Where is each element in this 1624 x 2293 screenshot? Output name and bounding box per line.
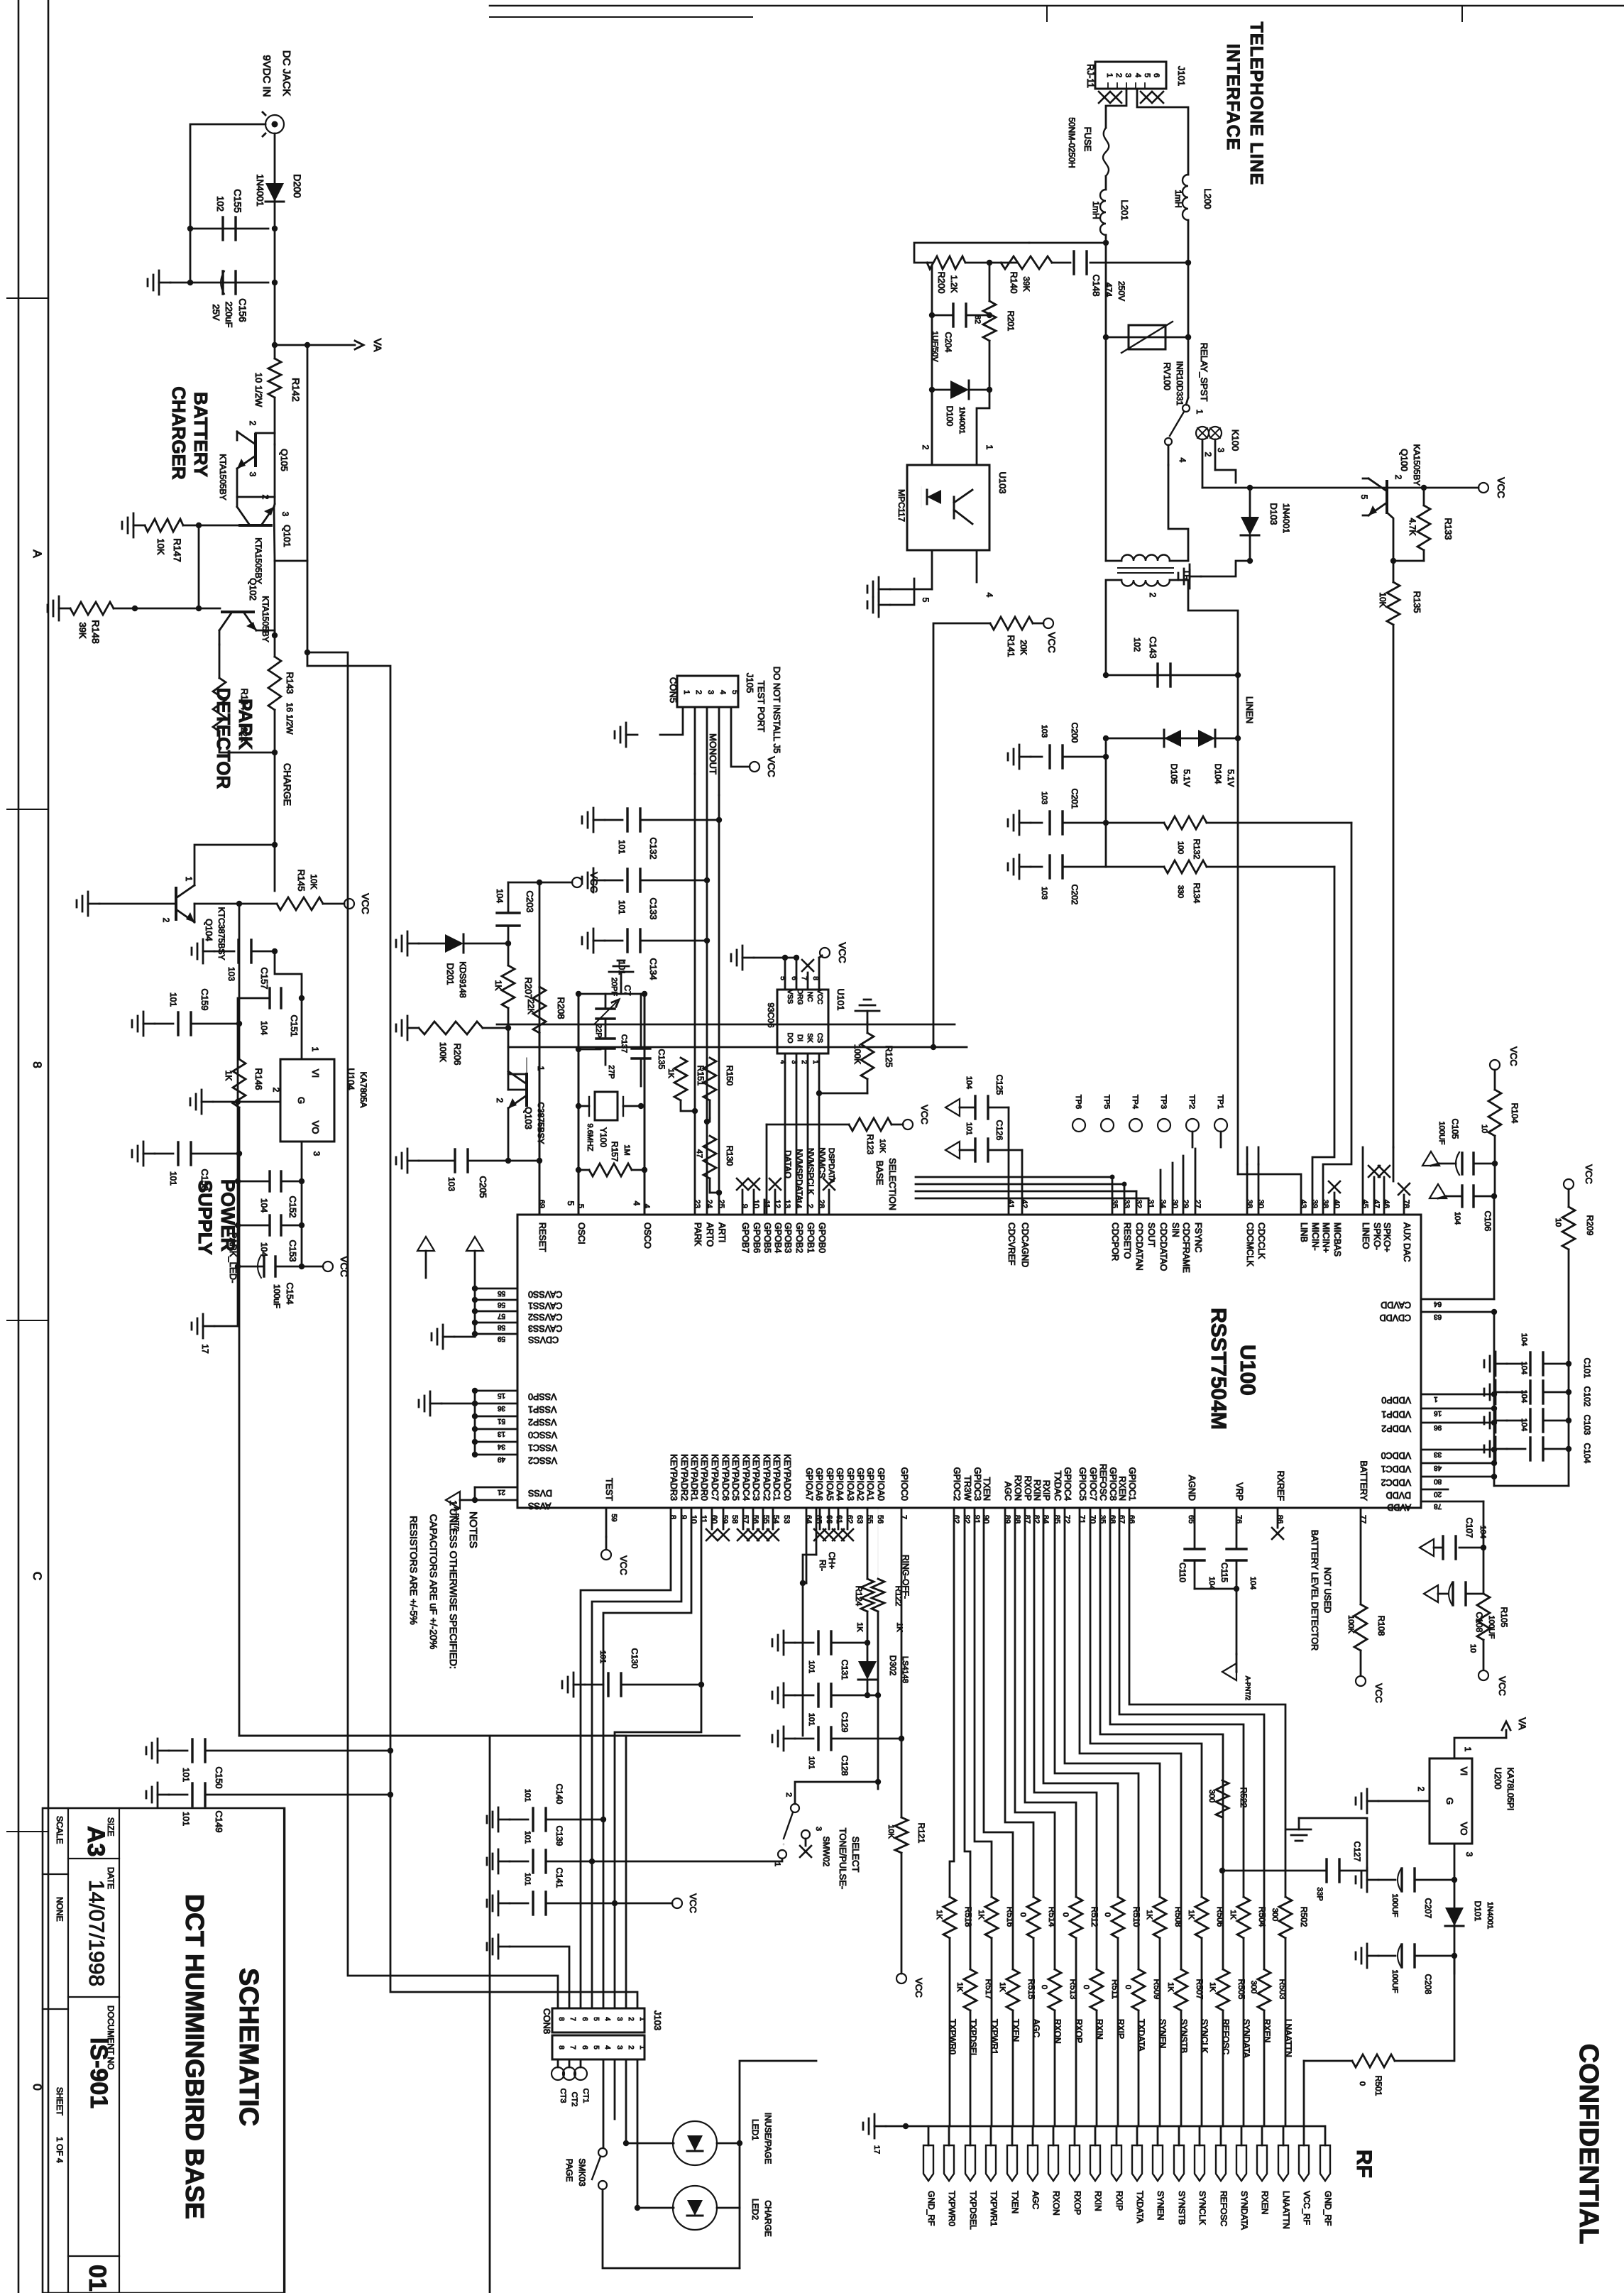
resistor R140 [1001, 256, 1052, 269]
svg-text:1K: 1K [1208, 1982, 1217, 1992]
svg-text:D201: D201 [445, 963, 456, 985]
svg-text:8: 8 [811, 976, 819, 980]
svg-text:LNAATTN: LNAATTN [1281, 2191, 1291, 2229]
svg-text:R146: R146 [253, 1068, 264, 1090]
wire C151 left [238, 998, 270, 1326]
optocoupler U103 box [907, 465, 989, 550]
ground C201 [1019, 822, 1031, 824]
svg-text:U103: U103 [997, 471, 1008, 493]
svg-text:102: 102 [215, 196, 226, 212]
svg-text:53: 53 [782, 1515, 791, 1523]
wire reset rail [508, 882, 539, 884]
analog gnd triangle 2 [417, 1237, 434, 1251]
svg-text:TXPDSEL: TXPDSEL [968, 2191, 978, 2230]
svg-text:VSSC2: VSSC2 [528, 1455, 557, 1465]
wire r133-r135 [1393, 561, 1424, 582]
svg-text:104: 104 [1453, 1212, 1461, 1225]
svg-text:AUX DAC: AUX DAC [1402, 1222, 1412, 1262]
svg-text:LINEO: LINEO [1361, 1222, 1371, 1249]
wire r140-c148 [1052, 262, 1070, 264]
resistor R143 [268, 657, 281, 710]
wire osc left [578, 994, 580, 1215]
svg-text:0: 0 [1082, 1985, 1090, 1989]
svg-text:VCC: VCC [360, 893, 371, 914]
wire charge-line long [275, 951, 302, 998]
svg-text:GPIOA4: GPIOA4 [835, 1467, 845, 1501]
ground c127 [1298, 1818, 1300, 1829]
svg-text:DVDD: DVDD [1386, 1490, 1411, 1500]
svg-text:GPOB3: GPOB3 [783, 1222, 793, 1253]
wire sec right down [1170, 580, 1238, 675]
svg-text:GPIOC0: GPIOC0 [899, 1467, 909, 1501]
pad bus dot [903, 2123, 909, 2129]
resistor R121 [895, 1817, 908, 1853]
border zone tick 1 [7, 297, 48, 299]
wire tip row [1029, 242, 1106, 244]
svg-text:C149: C149 [214, 1810, 224, 1832]
svg-text:R108: R108 [1376, 1616, 1386, 1636]
analog tri c106 [1430, 1184, 1447, 1198]
svg-text:58: 58 [497, 1323, 505, 1331]
svg-text:GPOB2: GPOB2 [794, 1222, 804, 1253]
svg-text:C135: C135 [657, 1049, 666, 1070]
rxref nc [1272, 1528, 1283, 1539]
R522 resistor [1216, 1780, 1229, 1817]
svg-text:TP2: TP2 [1187, 1095, 1196, 1109]
wire Q101 legs [237, 497, 275, 507]
node vi [299, 995, 304, 1001]
bus net SYNCLK [1090, 1508, 1202, 1897]
svg-text:CDCDATAN: CDCDATAN [1134, 1222, 1144, 1271]
wire zener row [1106, 738, 1238, 740]
ground C131 [784, 1642, 795, 1644]
testpoint CT1 [552, 2067, 564, 2080]
capacitor C154 polarized [263, 1257, 265, 1276]
svg-text:4: 4 [603, 2045, 611, 2050]
GPOB nc marks [737, 1178, 748, 1190]
RF pad VCC_RF [1299, 2145, 1309, 2181]
title separator line [489, 1736, 491, 2293]
svg-text:RXON: RXON [1053, 2019, 1063, 2044]
svg-text:104: 104 [495, 889, 505, 903]
wire micin2 [1312, 867, 1334, 1215]
regulator U200 [1430, 1758, 1472, 1844]
wire va-u200 [1454, 1738, 1506, 1758]
capacitor C207 [1400, 1868, 1403, 1891]
LED2 [673, 2186, 717, 2230]
svg-text:AVSS: AVSS [528, 1501, 551, 1511]
svg-text:101: 101 [598, 1651, 607, 1663]
svg-text:C125: C125 [994, 1075, 1004, 1095]
wire Q100 [1363, 478, 1368, 480]
svg-text:SYNSTB: SYNSTB [1179, 2019, 1189, 2053]
svg-text:BATTERY: BATTERY [1359, 1461, 1368, 1501]
resistor R206 [419, 1022, 483, 1034]
ground R147 [133, 525, 145, 527]
svg-text:9: 9 [740, 1204, 749, 1208]
RF pad RXOP [1070, 2145, 1080, 2181]
fuse F100 [1103, 128, 1109, 176]
svg-text:3: 3 [790, 1060, 798, 1064]
opto transistor [953, 497, 955, 518]
wire U104 gnd [213, 1101, 280, 1103]
capacitor C115 [1227, 1548, 1246, 1550]
transformer T100 core [1118, 567, 1173, 569]
VCC power supply [323, 1262, 333, 1271]
connector J101 [1095, 62, 1166, 89]
capacitor C143 [1156, 664, 1158, 686]
svg-text:VDDP0: VDDP0 [1381, 1395, 1411, 1405]
CAVSS rail [474, 1288, 476, 1337]
svg-text:C3875BSY: C3875BSY [536, 1102, 546, 1144]
wire C157 [274, 845, 276, 891]
svg-text:59: 59 [497, 1335, 505, 1342]
svg-text:8: 8 [557, 2045, 565, 2050]
svg-text:49: 49 [497, 1455, 505, 1463]
svg-text:GPIOA5: GPIOA5 [825, 1467, 835, 1501]
svg-text:104: 104 [259, 1242, 269, 1257]
svg-text:1K: 1K [935, 1910, 943, 1920]
svg-text:C203: C203 [525, 890, 535, 912]
svg-text:59: 59 [720, 1515, 729, 1523]
connector J103 CON8 row2 [552, 2035, 644, 2059]
wire trim [605, 994, 607, 1009]
svg-text:4: 4 [632, 1201, 642, 1206]
svg-text:104: 104 [1520, 1390, 1528, 1403]
svg-text:C157: C157 [259, 967, 270, 989]
capacitor C110 [1185, 1548, 1205, 1550]
analog tri c126 [945, 1142, 960, 1159]
wire e-r145 [194, 903, 277, 905]
ground R148 [59, 608, 70, 610]
svg-text:GPOB7: GPOB7 [740, 1222, 750, 1253]
svg-text:RF: RF [1352, 2150, 1376, 2178]
capacitor C148 [1072, 251, 1075, 274]
U101 pin7 nc [802, 960, 813, 971]
svg-text:MICIN-: MICIN- [1310, 1222, 1320, 1251]
svg-text:DVSS: DVSS [528, 1488, 552, 1498]
ground C102 [1496, 1391, 1507, 1394]
svg-text:1: 1 [682, 690, 691, 694]
wire L200-relay [1187, 337, 1190, 398]
svg-text:CDCFRAME: CDCFRAME [1181, 1222, 1191, 1273]
wire ring down [877, 1695, 879, 1789]
svg-text:AGC: AGC [1031, 2019, 1041, 2037]
svg-text:REFOSC: REFOSC [1219, 2191, 1229, 2226]
title block h3 [68, 2255, 119, 2257]
capacitor C104 [1529, 1438, 1531, 1460]
svg-text:CDCDATAO: CDCDATAO [1158, 1222, 1168, 1271]
capacitor C151 [268, 988, 270, 1008]
relay K100 pin4 wire [1168, 445, 1170, 465]
svg-text:C141: C141 [554, 1868, 564, 1888]
svg-text:CDCVREF: CDCVREF [1006, 1222, 1016, 1266]
connector J103 CON8 row1 [552, 2008, 644, 2032]
wire U200 out [1454, 1844, 1456, 1974]
svg-text:R208: R208 [556, 997, 566, 1019]
svg-text:L200: L200 [1202, 189, 1213, 209]
wire r124 down [867, 1611, 869, 1643]
svg-text:GPIOA7: GPIOA7 [804, 1467, 814, 1501]
svg-text:C137: C137 [620, 1034, 628, 1053]
svg-text:C207: C207 [1423, 1898, 1433, 1919]
RF pad GND_RF [1320, 2145, 1330, 2181]
wire Q102 emitter [219, 630, 221, 645]
svg-text:VA: VA [1517, 1717, 1528, 1730]
capacitor C202 [1048, 855, 1050, 878]
bus net TXPDSEL [965, 1508, 970, 1969]
resistor R514 [1027, 1897, 1040, 1938]
svg-text:VCC: VCC [1497, 1676, 1508, 1695]
svg-text:2: 2 [1416, 1787, 1426, 1792]
resistor R208 [533, 987, 546, 1033]
svg-text:220uF: 220uF [224, 302, 234, 328]
svg-text:R517: R517 [984, 1979, 994, 2000]
svg-text:1K: 1K [224, 1071, 234, 1081]
ground C104 [1496, 1448, 1507, 1450]
capacitor C157 ground [203, 951, 214, 953]
wire left col down [1105, 738, 1107, 867]
sw102 nc [800, 1846, 811, 1857]
svg-text:1: 1 [536, 1066, 546, 1071]
svg-text:DO: DO [786, 1033, 794, 1044]
svg-text:RXREF: RXREF [1275, 1471, 1285, 1501]
capacitor C156 [221, 271, 224, 294]
svg-text:KEYPADR2: KEYPADR2 [679, 1454, 689, 1501]
svg-text:1K: 1K [955, 1982, 964, 1992]
RF pad LNAATTN [1278, 2145, 1288, 2181]
svg-text:47: 47 [695, 1149, 703, 1158]
wire VA rail ext [307, 561, 309, 666]
diode D103 [1241, 517, 1259, 535]
ground C202 [1019, 866, 1031, 868]
svg-text:1M: 1M [622, 1144, 631, 1155]
svg-text:C205: C205 [478, 1176, 488, 1198]
svg-text:104: 104 [1520, 1418, 1528, 1431]
svg-text:16: 16 [1434, 1409, 1442, 1417]
con8 down pin4 [603, 2059, 605, 2147]
resistor R505 [1217, 1969, 1229, 2010]
title block v1 [67, 1808, 69, 2293]
svg-text:KEYPADR3: KEYPADR3 [669, 1454, 679, 1501]
switch SW102 [791, 1804, 799, 1812]
svg-text:LINEN: LINEN [1244, 696, 1255, 723]
ground osc [620, 972, 622, 983]
svg-text:15: 15 [497, 1391, 505, 1399]
resistor R130 [703, 1136, 716, 1178]
wire battery pin [1360, 1508, 1362, 1604]
svg-text:1K: 1K [1187, 1910, 1195, 1920]
svg-text:TP1: TP1 [1216, 1095, 1224, 1109]
svg-text:104: 104 [1249, 1577, 1257, 1589]
ground C159 [143, 1023, 155, 1025]
bus wire A2 [307, 666, 637, 2008]
svg-text:82: 82 [973, 315, 982, 324]
wire gpob lines [742, 1190, 744, 1215]
svg-text:3: 3 [1216, 448, 1226, 453]
svg-text:SYNEN: SYNEN [1156, 2191, 1165, 2220]
ground D103 [1190, 576, 1201, 578]
svg-text:300: 300 [1249, 1981, 1258, 1993]
svg-text:GND_RF: GND_RF [926, 2191, 936, 2226]
svg-text:VCC: VCC [588, 872, 600, 893]
wire led right rail [717, 2143, 740, 2208]
svg-text:D101: D101 [1473, 1901, 1483, 1922]
svg-text:3: 3 [706, 690, 715, 694]
node charge [272, 750, 278, 755]
wire row c143 [1106, 674, 1238, 677]
ground D201 [407, 943, 419, 945]
RF pad RXIP [1112, 2145, 1121, 2181]
svg-text:3: 3 [615, 2045, 623, 2050]
svg-text:25: 25 [717, 1200, 725, 1208]
svg-text:1K: 1K [1145, 1910, 1153, 1920]
bus net RXIP [1043, 1508, 1118, 1897]
svg-text:22P: 22P [594, 1024, 603, 1038]
svg-text:10K: 10K [309, 874, 319, 889]
VSS rail [474, 1391, 476, 1455]
svg-text:GPIOC4: GPIOC4 [1063, 1467, 1072, 1501]
capacitor C157 [237, 940, 239, 963]
svg-text:R132: R132 [1192, 839, 1202, 860]
svg-text:VDDC1: VDDC1 [1381, 1464, 1411, 1474]
ground C134 [593, 940, 605, 942]
svg-text:10: 10 [1554, 1218, 1562, 1227]
capacitor C130 [607, 1673, 609, 1696]
wire r125-cs [819, 1093, 867, 1095]
svg-text:4: 4 [642, 1204, 651, 1208]
svg-text:1N4001: 1N4001 [958, 407, 966, 434]
svg-text:TXPWR1: TXPWR1 [989, 2019, 999, 2054]
svg-text:27P: 27P [607, 1065, 615, 1079]
svg-text:NVMCS: NVMCS [817, 1147, 827, 1178]
svg-text:LED1: LED1 [750, 2119, 760, 2140]
svg-text:G: G [296, 1097, 307, 1104]
resistor R512 [1070, 1897, 1082, 1938]
svg-text:3: 3 [312, 1151, 322, 1156]
wire J105 p2 monout [694, 707, 696, 774]
resistor R511 [1090, 1969, 1103, 2010]
svg-text:GPIOA2: GPIOA2 [855, 1467, 865, 1501]
svg-text:20: 20 [1434, 1490, 1442, 1498]
svg-text:RXEN: RXEN [1260, 2191, 1270, 2214]
wire keypadr1 feed [603, 1508, 691, 2008]
ground left of r141 [879, 604, 890, 606]
VCC J105 [750, 762, 759, 772]
ground con8 extra [498, 1946, 510, 1948]
wire c132 net ties [716, 817, 722, 823]
svg-text:VCC: VCC [837, 942, 848, 963]
svg-text:R512: R512 [1090, 1907, 1099, 1927]
capacitor C200 [1048, 745, 1050, 768]
svg-text:C201: C201 [1070, 789, 1080, 809]
micbas nc [1329, 1181, 1340, 1193]
svg-text:VRP: VRP [1234, 1482, 1244, 1501]
svg-text:21: 21 [497, 1488, 505, 1496]
svg-text:2: 2 [1203, 452, 1213, 457]
svg-text:3: 3 [248, 472, 258, 477]
svg-text:38: 38 [1321, 1200, 1329, 1208]
resistor R144 [213, 678, 226, 731]
ground C205 [407, 1160, 419, 1162]
svg-text:GPIOA1: GPIOA1 [865, 1467, 875, 1501]
svg-text:R504: R504 [1257, 1907, 1267, 1927]
capacitor C134 [626, 929, 628, 952]
svg-text:TP4: TP4 [1131, 1095, 1139, 1109]
wire agnd join [1195, 1588, 1236, 1590]
svg-text:J101: J101 [1176, 66, 1187, 86]
resistor R200 [927, 256, 965, 269]
wire q103 base [507, 1073, 510, 1090]
svg-text:4: 4 [603, 2017, 611, 2021]
title block h left2 [43, 2008, 68, 2010]
ground C158 [143, 1153, 155, 1155]
svg-text:1: 1 [1434, 1395, 1438, 1403]
svg-text:GPOB6: GPOB6 [752, 1222, 762, 1253]
resistor R510 [1112, 1897, 1124, 1938]
svg-text:VCC_RF: VCC_RF [1302, 2191, 1312, 2225]
bus wire A1 [307, 652, 558, 2008]
svg-text:C101: C101 [1582, 1358, 1592, 1379]
svg-text:101: 101 [617, 840, 627, 854]
svg-text:2: 2 [248, 421, 258, 426]
svg-text:R145: R145 [296, 869, 307, 891]
svg-text:250V: 250V [1116, 281, 1126, 301]
svg-text:TXPWR1: TXPWR1 [989, 2191, 999, 2226]
ground C103 [1496, 1420, 1507, 1422]
svg-text:GPOB5: GPOB5 [762, 1222, 772, 1253]
resistor R507 [1175, 1969, 1187, 2010]
svg-text:NVMSPDATA: NVMSPDATA [794, 1149, 804, 1201]
svg-text:CDCPOR: CDCPOR [1110, 1222, 1120, 1261]
svg-text:INR10D331: INR10D331 [1175, 361, 1185, 406]
svg-text:57: 57 [497, 1312, 505, 1320]
svg-text:8: 8 [31, 1061, 44, 1068]
svg-text:2: 2 [271, 1088, 281, 1093]
svg-text:4.7K: 4.7K [1408, 518, 1417, 536]
diode D200 [265, 183, 284, 202]
svg-text:C159: C159 [199, 988, 210, 1010]
svg-text:C106: C106 [1483, 1211, 1493, 1232]
svg-text:VO: VO [310, 1121, 321, 1134]
svg-text:103: 103 [446, 1177, 456, 1191]
svg-text:100UF: 100UF [1390, 1893, 1399, 1917]
ground C132 [593, 819, 605, 821]
svg-text:6: 6 [581, 2017, 588, 2021]
svg-text:104: 104 [259, 1198, 269, 1213]
svg-text:RXIN: RXIN [1093, 2191, 1103, 2211]
ground C130 [574, 1684, 585, 1686]
svg-text:VDDP2: VDDP2 [1381, 1423, 1411, 1433]
svg-text:C202: C202 [1070, 885, 1080, 905]
svg-text:R148: R148 [90, 620, 101, 644]
cdcvref wires [1008, 1107, 1010, 1215]
svg-text:KTA1505BY: KTA1505BY [260, 596, 270, 642]
svg-text:5: 5 [576, 1204, 585, 1208]
svg-text:5.1V: 5.1V [1182, 770, 1192, 787]
svg-text:TXPWR0: TXPWR0 [947, 2191, 957, 2226]
svg-text:SIN: SIN [1170, 1222, 1180, 1237]
vdd cap rail [1568, 1249, 1570, 1486]
trimmer C7 [596, 1007, 615, 1009]
svg-text:CT3: CT3 [559, 2089, 567, 2103]
svg-text:R503: R503 [1278, 1979, 1288, 2000]
svg-text:0: 0 [1358, 2081, 1366, 2086]
wire avdd2 [1483, 1548, 1485, 1594]
svg-text:CHARGE: CHARGE [282, 763, 293, 806]
VCC battery [1356, 1676, 1366, 1686]
svg-text:PARK: PARK [693, 1222, 703, 1247]
